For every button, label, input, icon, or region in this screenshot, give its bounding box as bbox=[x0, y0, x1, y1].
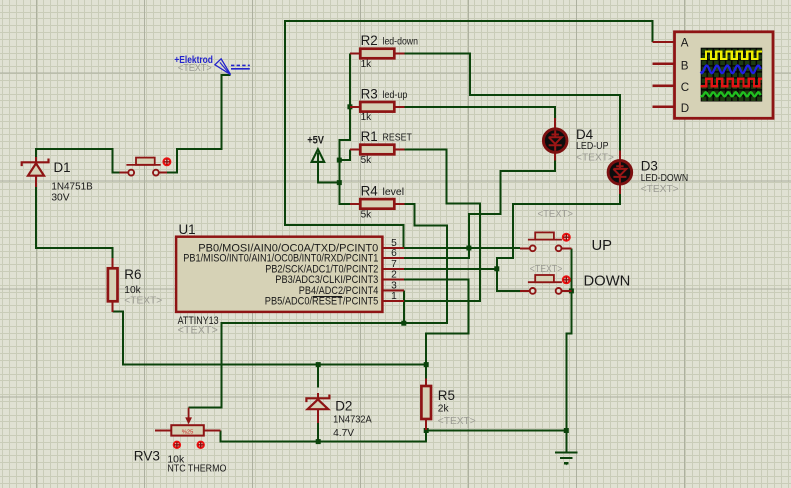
svg-text:B: B bbox=[681, 60, 689, 73]
svg-text:R1: R1 bbox=[361, 129, 378, 144]
wire top bus PB0 to oscilloscope A bbox=[285, 21, 652, 247]
switch SW1 bbox=[120, 158, 167, 176]
junction bbox=[337, 180, 342, 185]
junction bbox=[424, 428, 429, 433]
svg-text:RV3: RV3 bbox=[134, 449, 160, 464]
resistor R5 leads bbox=[425, 379, 427, 430]
svg-text:level: level bbox=[383, 187, 405, 198]
svg-text:UP: UP bbox=[592, 238, 613, 254]
svg-text:<TEXT>: <TEXT> bbox=[178, 325, 218, 337]
wire D1 to R6 bbox=[36, 182, 113, 259]
junction bbox=[347, 104, 352, 109]
wire R4 level to pin3 and RV3 wiper bbox=[189, 204, 447, 408]
svg-text:R4: R4 bbox=[361, 183, 379, 198]
button DOWN bbox=[520, 290, 572, 292]
wire bottom ground rail bbox=[221, 430, 427, 441]
svg-text:LED-UP: LED-UP bbox=[576, 141, 609, 152]
svg-text:1k: 1k bbox=[361, 59, 373, 70]
svg-text:5k: 5k bbox=[361, 155, 373, 166]
wire D2 leads bbox=[317, 365, 319, 442]
junction bbox=[466, 246, 471, 251]
U1 pins 5 6 7 2 3 1 bbox=[382, 238, 403, 302]
oscilloscope bbox=[675, 32, 774, 119]
wire R3 to D4 anode bbox=[405, 107, 555, 118]
wire D4 cathode to pin6 bbox=[404, 160, 555, 257]
resistor R4 level 5k bbox=[350, 183, 405, 220]
wire R2 to D3 anode bbox=[405, 54, 620, 152]
junction bbox=[494, 266, 499, 271]
wire pin2 to R5 bbox=[404, 280, 469, 379]
svg-text:<TEXT>: <TEXT> bbox=[641, 184, 679, 195]
potentiometer RV3 NTC THERMO bbox=[134, 408, 227, 475]
wire R6 bottom to sense rail bbox=[113, 311, 427, 364]
svg-text:R3: R3 bbox=[361, 86, 378, 101]
svg-text:<TEXT>: <TEXT> bbox=[438, 416, 476, 427]
junction bbox=[424, 362, 429, 367]
wire switch to D1 bbox=[36, 149, 126, 172]
svg-text:1N4732A: 1N4732A bbox=[333, 415, 372, 426]
probe +Elektrod bbox=[174, 55, 249, 75]
junction bbox=[316, 362, 321, 367]
wire D3 cathode to pin7 and DOWN button bbox=[497, 194, 620, 291]
wire electrode to switch bbox=[162, 75, 231, 173]
junction bbox=[564, 428, 569, 433]
resistor R3 led-up 1k bbox=[350, 86, 408, 123]
svg-text:1N4751B: 1N4751B bbox=[51, 181, 92, 192]
resistor R2 led-down 1k bbox=[350, 33, 418, 70]
junction bbox=[569, 288, 574, 293]
svg-text:C: C bbox=[681, 81, 689, 94]
svg-text:RESET: RESET bbox=[383, 133, 412, 144]
svg-text:A: A bbox=[681, 37, 689, 50]
svg-text:1k: 1k bbox=[361, 112, 373, 123]
svg-text:3: 3 bbox=[391, 281, 397, 292]
svg-text:R2: R2 bbox=[361, 33, 378, 48]
svg-text:<TEXT>: <TEXT> bbox=[530, 264, 563, 275]
svg-text:7: 7 bbox=[391, 259, 397, 270]
svg-text:D4: D4 bbox=[576, 127, 594, 142]
svg-text:%25: %25 bbox=[182, 430, 194, 436]
svg-text:30V: 30V bbox=[51, 193, 69, 204]
wire PB0 row to UP button bbox=[404, 247, 520, 249]
svg-text:1: 1 bbox=[391, 291, 397, 302]
svg-text:led-up: led-up bbox=[383, 90, 408, 101]
label UP bbox=[538, 209, 613, 254]
svg-text:U1: U1 bbox=[179, 222, 196, 237]
svg-text:<TEXT>: <TEXT> bbox=[538, 209, 574, 220]
svg-text:D3: D3 bbox=[641, 159, 658, 174]
svg-text:2: 2 bbox=[391, 270, 397, 281]
diode D2 zener 1N4732A bbox=[306, 393, 371, 439]
RV3 minus dot bbox=[174, 442, 180, 448]
junction bbox=[337, 158, 342, 163]
svg-text:LED-DOWN: LED-DOWN bbox=[641, 173, 689, 184]
svg-text:led-down: led-down bbox=[383, 37, 419, 48]
svg-text:4.7V: 4.7V bbox=[333, 428, 354, 439]
power +5V bbox=[307, 135, 324, 162]
svg-text:R6: R6 bbox=[124, 267, 141, 282]
junction bbox=[316, 439, 321, 444]
svg-text:<TEXT>: <TEXT> bbox=[124, 295, 162, 306]
IC U1 ATTINY13 bbox=[176, 222, 382, 337]
switch SW1 actuator dot bbox=[164, 158, 171, 165]
svg-text:NTC THERMO: NTC THERMO bbox=[167, 464, 226, 475]
resistor R5 2k bbox=[421, 386, 475, 427]
svg-text:<TEXT>: <TEXT> bbox=[576, 152, 614, 163]
button DOWN dot bbox=[563, 276, 570, 283]
wire R1 to pin1 RESET bbox=[404, 150, 480, 302]
LED D3 LED-DOWN bbox=[619, 151, 621, 195]
label DOWN bbox=[530, 264, 631, 289]
button UP dot bbox=[563, 234, 570, 241]
svg-text:R5: R5 bbox=[438, 388, 455, 403]
svg-text:2k: 2k bbox=[438, 404, 450, 415]
svg-text:D1: D1 bbox=[54, 160, 71, 175]
svg-text:5k: 5k bbox=[361, 209, 373, 220]
svg-text:D2: D2 bbox=[335, 398, 352, 413]
button UP bbox=[520, 247, 572, 249]
svg-text:D: D bbox=[681, 102, 689, 115]
ground bbox=[555, 453, 578, 466]
svg-text:6: 6 bbox=[391, 248, 397, 259]
wire pin7 row bbox=[404, 268, 497, 270]
diode D1 zener 1N4751B bbox=[22, 157, 93, 204]
wire buttons to ground bbox=[426, 248, 571, 430]
wire +5V distribution bbox=[318, 54, 350, 204]
resistor R1 RESET 5k bbox=[350, 129, 412, 166]
RV3 plus dot bbox=[198, 442, 204, 448]
svg-text:+5V: +5V bbox=[307, 135, 324, 147]
wire ground stem bbox=[565, 431, 567, 452]
junction bbox=[401, 321, 406, 326]
resistor R6 10k bbox=[108, 267, 162, 306]
oscilloscope pins A B C D bbox=[652, 42, 674, 107]
LED D4 LED-UP bbox=[554, 118, 556, 161]
svg-text:<TEXT>: <TEXT> bbox=[178, 63, 212, 74]
resistor R6 leads bbox=[112, 258, 114, 312]
svg-text:DOWN: DOWN bbox=[584, 274, 631, 290]
svg-text:PB5/ADC0/RESET/PCINT5: PB5/ADC0/RESET/PCINT5 bbox=[265, 296, 379, 308]
